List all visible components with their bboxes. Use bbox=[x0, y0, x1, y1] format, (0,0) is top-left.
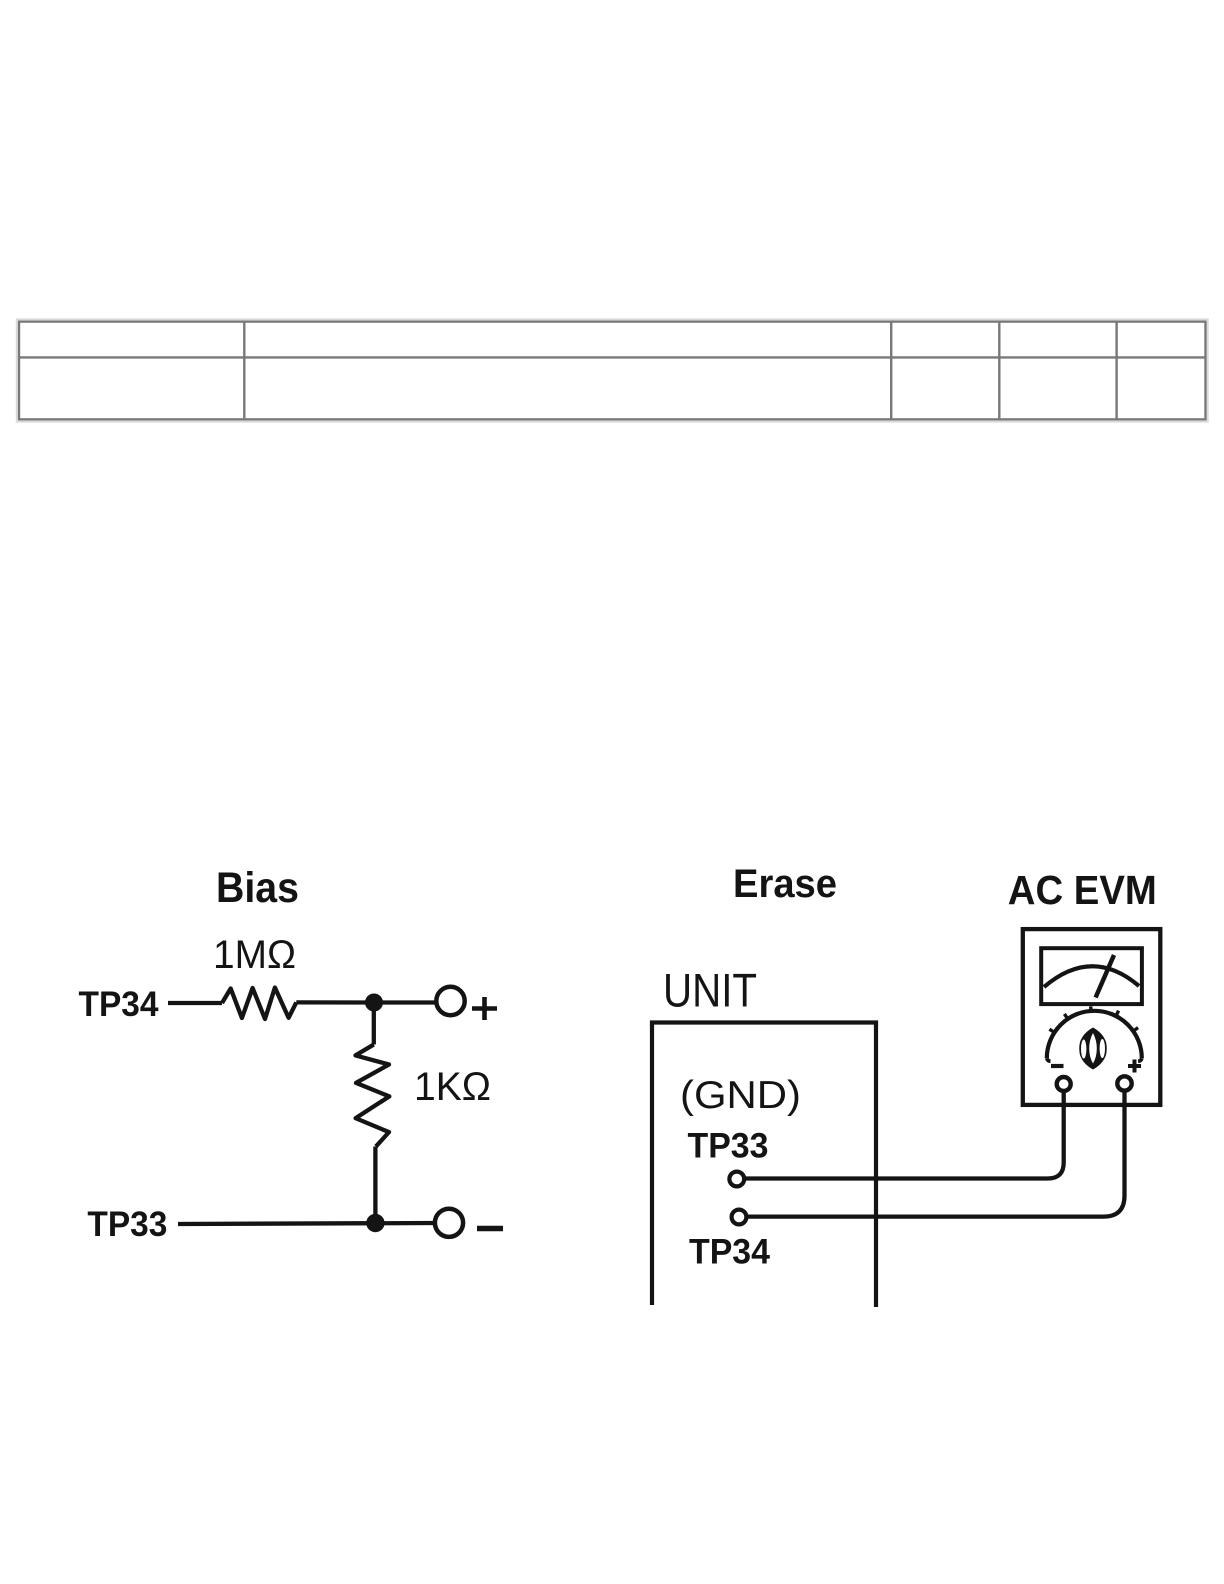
table (empty 2x5 adjustment table) bbox=[17, 319, 1208, 422]
terminal + circle bbox=[436, 987, 464, 1015]
resistor R 1K ohm bbox=[356, 1045, 390, 1147]
meter - mark bbox=[1051, 1064, 1064, 1068]
wire TP33 to meter - terminal bbox=[745, 1092, 1064, 1179]
svg-text:1KΩ: 1KΩ bbox=[414, 1065, 491, 1109]
svg-text:Bias: Bias bbox=[216, 864, 299, 912]
test point TP33 circle bbox=[729, 1172, 744, 1187]
wire node down bbox=[372, 1010, 376, 1045]
svg-text:TP34: TP34 bbox=[79, 985, 160, 1024]
svg-text:AC EVM: AC EVM bbox=[1008, 867, 1157, 913]
svg-text:(GND): (GND) bbox=[680, 1074, 801, 1117]
meter terminal + bbox=[1117, 1076, 1131, 1090]
svg-text:TP33: TP33 bbox=[688, 1127, 769, 1166]
meter display window bbox=[1041, 948, 1142, 1004]
meter U1 body bbox=[1023, 929, 1161, 1105]
test point TP34 circle bbox=[732, 1210, 747, 1225]
dial arc bbox=[1047, 1011, 1142, 1058]
svg-text:TP34: TP34 bbox=[689, 1233, 771, 1272]
polarity mark + bbox=[472, 997, 497, 1020]
wire TP34 lead bbox=[168, 1001, 222, 1005]
resistor R 1M ohm bbox=[222, 988, 296, 1020]
wire resistor to bottom node bbox=[373, 1147, 377, 1224]
svg-text:Erase: Erase bbox=[733, 862, 837, 906]
meter needle bbox=[1096, 955, 1114, 998]
svg-text:TP33: TP33 bbox=[87, 1205, 167, 1244]
svg-text:1MΩ: 1MΩ bbox=[213, 933, 296, 977]
wire node to + terminal bbox=[382, 1000, 436, 1004]
meter scale arc bbox=[1044, 966, 1139, 987]
svg-text:UNIT: UNIT bbox=[663, 964, 757, 1017]
junction node top bbox=[365, 994, 383, 1012]
wire TP33 to - terminal bbox=[178, 1223, 436, 1224]
meter terminal - bbox=[1057, 1077, 1071, 1091]
meter + mark bbox=[1128, 1060, 1141, 1073]
dial tick marks bbox=[1049, 1006, 1138, 1033]
UNIT box bbox=[652, 1023, 876, 1308]
terminal - circle bbox=[435, 1209, 463, 1237]
wire TP34 to meter + terminal bbox=[747, 1091, 1125, 1217]
junction node bottom bbox=[366, 1214, 384, 1232]
wire resistor to node bbox=[296, 1000, 367, 1004]
dial knob bbox=[1079, 1028, 1107, 1070]
polarity mark - bbox=[477, 1226, 503, 1232]
